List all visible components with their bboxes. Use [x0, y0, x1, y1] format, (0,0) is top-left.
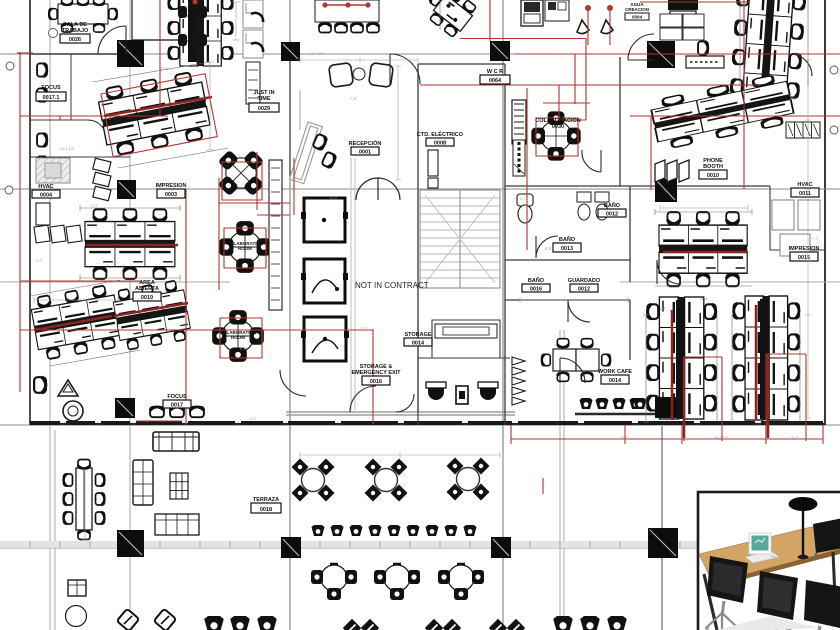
- svg-text:0019: 0019: [141, 295, 153, 301]
- bench 3-seat: [34, 225, 82, 243]
- JIT workstations: [243, 0, 263, 104]
- door sala de trabajo: [98, 26, 126, 54]
- red accents thick: [34, 97, 768, 438]
- svg-text:10'-0": 10'-0": [360, 327, 368, 331]
- svg-text:BAÑO: BAÑO: [559, 236, 576, 243]
- svg-text:IMPRESION: IMPRESION: [156, 183, 187, 189]
- door reception right: [390, 54, 420, 84]
- column C6: [655, 179, 677, 202]
- column C5: [117, 180, 136, 199]
- column C7: [115, 398, 135, 418]
- lockers dashed strip: [513, 140, 525, 176]
- svg-text:FOCUS: FOCUS: [41, 85, 61, 91]
- column C8: [655, 397, 676, 418]
- svg-text:7'-5": 7'-5": [350, 97, 358, 101]
- column C12: [648, 528, 678, 558]
- CTD electrico equipment: [428, 150, 438, 188]
- grid line vertical x=130: [129, 0, 131, 630]
- desk cluster B: [85, 209, 175, 279]
- chair 2 center: [757, 571, 798, 630]
- red vertical x651: [650, 116, 652, 190]
- round table T3 tilted: [420, 0, 478, 39]
- wall right rooms: [770, 186, 826, 250]
- svg-text:8'-2": 8'-2": [790, 97, 798, 101]
- wall colaboracion right: [619, 57, 621, 186]
- svg-text:0016: 0016: [370, 379, 382, 385]
- grid line horizontal y=543 terrace: [0, 543, 697, 548]
- svg-text:5'-1": 5'-1": [240, 347, 248, 351]
- label GUARDADO 0012: [568, 278, 601, 293]
- red segment facade left: [136, 420, 182, 422]
- red verticals work cafe: [526, 88, 528, 250]
- vertical desk cluster top T1: [169, 0, 233, 66]
- quad tables row 2: [311, 564, 357, 600]
- angled desk cluster A: [96, 70, 212, 156]
- colaboracion pod P1: [531, 111, 580, 160]
- chair near C4: [698, 41, 708, 55]
- lockers right: [786, 122, 820, 138]
- wall bath block horizontal: [505, 186, 770, 360]
- dimension cages thin: [30, 0, 808, 422]
- bar stools row: [580, 398, 659, 409]
- label IMPRESION 0015: [789, 246, 820, 261]
- door arc colaboracion: [582, 150, 601, 172]
- column diagonals: [117, 42, 676, 556]
- svg-text:14'-1 1/2": 14'-1 1/2": [60, 147, 76, 151]
- label BANO 0012: [598, 202, 626, 218]
- chair right back top: [813, 518, 840, 553]
- svg-text:CREACION: CREACION: [625, 7, 649, 12]
- bar counter: [575, 413, 658, 416]
- red vertical left: [19, 52, 21, 392]
- svg-text:GUARDADO: GUARDADO: [568, 278, 601, 284]
- red line T2: [325, 4, 368, 6]
- meeting table sala de trabajo: [49, 0, 117, 32]
- sofa horizontal: [155, 514, 199, 535]
- column C2: [281, 42, 300, 61]
- wall center core: [418, 64, 505, 425]
- svg-text:WORK CAFE: WORK CAFE: [598, 369, 632, 375]
- label COLABORACION 0030: [535, 118, 581, 130]
- grid line horizontal y=189: [0, 188, 840, 190]
- svg-text:0029: 0029: [258, 106, 270, 112]
- column C1: [117, 40, 144, 67]
- column C4: [647, 41, 675, 68]
- svg-text:0011: 0011: [799, 191, 811, 197]
- pantry counters: [521, 0, 569, 26]
- elevator 2: [301, 259, 348, 303]
- label IMPRESION 0003: [156, 183, 187, 198]
- grid line vertical x=50: [49, 0, 51, 630]
- svg-text:4'-6": 4'-6": [690, 387, 698, 391]
- label JUST IN TIME 0029: [249, 90, 279, 112]
- grid line horizontal y=282: [0, 281, 840, 283]
- svg-text:0013: 0013: [561, 246, 573, 252]
- label HVAC 0011: [791, 182, 819, 197]
- door bottom bath: [350, 386, 414, 412]
- lockers row below C4: [686, 56, 724, 68]
- svg-text:10'-2": 10'-2": [790, 436, 800, 440]
- svg-text:9'-6": 9'-6": [740, 5, 746, 9]
- door guardado: [568, 300, 590, 322]
- svg-text:0014: 0014: [412, 341, 425, 347]
- door hvac left: [204, 499, 206, 501]
- bottom diamond chairs: [117, 609, 140, 630]
- svg-text:0015: 0015: [798, 255, 810, 261]
- red box cluster A: [101, 74, 217, 157]
- desk shadow: [717, 616, 820, 630]
- laptop: [745, 551, 779, 563]
- red dim line bottom right: [511, 425, 823, 444]
- door focus bottom: [280, 370, 306, 396]
- shelf 3x3: [170, 473, 188, 499]
- svg-text:4'-3": 4'-3": [520, 197, 526, 201]
- red tiny dim texts: [60, 67, 800, 440]
- HVAC hatched unit: [36, 158, 70, 183]
- svg-text:FOCUS: FOCUS: [167, 394, 187, 400]
- grid line vertical x=503: [502, 0, 504, 630]
- left wall x=30: [29, 0, 31, 425]
- svg-text:BOOTH: BOOTH: [703, 164, 723, 170]
- desk cluster C: [659, 212, 747, 286]
- wall bottom bath: [418, 320, 510, 425]
- red pod connectors: [219, 152, 290, 290]
- desk legs: [704, 574, 717, 630]
- svg-text:ROOM: ROOM: [231, 335, 245, 340]
- lounge chairs row: [312, 525, 477, 536]
- elevator 3: [301, 317, 349, 361]
- red dim verticals top: [588, 8, 610, 45]
- photo frame: [698, 492, 840, 630]
- svg-text:ROOM: ROOM: [238, 246, 252, 251]
- svg-text:12'-4 1/2": 12'-4 1/2": [310, 52, 323, 56]
- label BANO 0013: [553, 236, 581, 252]
- svg-text:BAÑO: BAÑO: [604, 202, 621, 209]
- label AGUA CREACION 0004: [625, 2, 649, 20]
- chair 3 right: [804, 580, 840, 630]
- label BANO 0016: [522, 277, 550, 293]
- red vertical x186: [185, 189, 187, 425]
- label TERRAZA 0018: [251, 497, 281, 513]
- HVAC right equipment: [772, 200, 820, 256]
- wall sala de trabajo: [30, 0, 180, 54]
- entry double door: [356, 178, 400, 200]
- agua creacion chairs: [577, 20, 613, 34]
- svg-text:HVAC: HVAC: [797, 182, 812, 188]
- grid bubbles: [5, 29, 838, 195]
- building bottom wall: [30, 423, 826, 425]
- svg-text:0010: 0010: [707, 173, 719, 179]
- label WORK CAFE 0014: [598, 369, 632, 384]
- desk top: [699, 520, 840, 583]
- svg-text:11'-4": 11'-4": [700, 297, 709, 301]
- label STORAGE EMERGENCY EXIT 0016: [351, 364, 401, 385]
- svg-text:9'-0": 9'-0": [330, 197, 338, 201]
- svg-text:TERRAZA: TERRAZA: [253, 497, 279, 503]
- grid line vertical x=560 double: [560, 330, 564, 630]
- svg-text:NOT IN CONTRACT: NOT IN CONTRACT: [355, 281, 429, 290]
- bathroom fixtures top: [517, 192, 609, 223]
- svg-text:HVAC: HVAC: [38, 184, 53, 190]
- svg-text:CTD. ELÉCTRICO: CTD. ELÉCTRICO: [417, 130, 464, 138]
- printers impresion: [93, 158, 111, 201]
- pod P2: [206, 138, 276, 208]
- elevator 1: [301, 198, 348, 242]
- svg-text:0064: 0064: [489, 78, 502, 84]
- svg-text:W C R: W C R: [487, 69, 503, 75]
- sofa under wall: [153, 432, 199, 451]
- svg-text:6'-1": 6'-1": [660, 307, 666, 311]
- svg-text:IMPRESION: IMPRESION: [789, 246, 820, 252]
- long picnic table: [64, 460, 105, 540]
- red vertical x160 top: [159, 0, 161, 116]
- meeting table T2: [315, 0, 379, 33]
- svg-text:TRABAJO: TRABAJO: [62, 28, 89, 34]
- terrace paving band fill: [0, 541, 697, 548]
- pod P3: [219, 221, 271, 273]
- svg-text:5'-5": 5'-5": [36, 259, 42, 263]
- door arc focus: [88, 120, 106, 138]
- reception armchairs: [329, 63, 394, 88]
- side chairs along left wall: [37, 63, 47, 170]
- door top right wall: [628, 34, 654, 60]
- label FOCUS 0017.1: [36, 85, 66, 101]
- focus lounge chairs: [150, 407, 204, 417]
- wall storage room: [432, 320, 500, 358]
- svg-text:BAÑO: BAÑO: [528, 277, 545, 284]
- svg-text:TIME: TIME: [257, 96, 270, 102]
- dimension scatter: [34, 2, 811, 540]
- chair 1 left: [705, 556, 748, 630]
- svg-text:RECEPCIÓN: RECEPCIÓN: [349, 139, 382, 147]
- svg-text:24'-7 1/2": 24'-7 1/2": [714, 436, 730, 440]
- cabinet strip mid: [512, 100, 526, 144]
- work cafe table: [542, 339, 611, 382]
- door bano right: [657, 260, 681, 284]
- svg-text:0030: 0030: [552, 124, 564, 130]
- lamp: [789, 497, 818, 511]
- phone booths: [655, 160, 689, 182]
- mini rooms grid top right: [660, 14, 704, 40]
- red top center verticals: [489, 0, 491, 41]
- svg-text:0016: 0016: [530, 287, 542, 293]
- svg-text:0004: 0004: [632, 15, 643, 20]
- wall focus room bottom: [30, 54, 130, 157]
- red vertical x294: [293, 158, 295, 215]
- svg-text:6'-8": 6'-8": [545, 247, 553, 251]
- red horizontal y330: [20, 329, 374, 331]
- svg-text:0014: 0014: [609, 378, 622, 384]
- svg-text:0003: 0003: [165, 192, 177, 198]
- column C10: [281, 537, 301, 558]
- svg-text:0001: 0001: [359, 150, 371, 156]
- grid line vertical x=825 right wall: [824, 0, 826, 425]
- round chair: [63, 401, 83, 421]
- label HVAC 0004: [32, 184, 60, 199]
- svg-text:15'-0": 15'-0": [90, 204, 98, 208]
- svg-text:EMERGENCY EXIT: EMERGENCY EXIT: [351, 370, 401, 376]
- storage shelves: [435, 324, 497, 338]
- svg-text:0012: 0012: [578, 287, 590, 293]
- label FOCUS 0017: [163, 394, 191, 409]
- vertical cluster F: [647, 297, 715, 419]
- armchair left bottom: [34, 377, 46, 393]
- svg-text:4'-6": 4'-6": [750, 387, 758, 391]
- label STORAGE 0014: [404, 332, 432, 347]
- svg-text:18'-3": 18'-3": [620, 436, 630, 440]
- svg-text:8'-9": 8'-9": [250, 417, 256, 421]
- grid line horizontal y=425 building bottom: [0, 424, 840, 426]
- svg-text:0018: 0018: [260, 507, 272, 513]
- grid line horizontal y=54: [0, 53, 840, 55]
- vertical desk cluster top-right T4: [730, 0, 805, 106]
- reception counter: [289, 122, 322, 184]
- sofa vertical: [133, 460, 153, 505]
- label RECEPCION 0001: [349, 139, 382, 156]
- red dots top: [322, 2, 613, 11]
- door arcs: [98, 26, 812, 500]
- svg-text:ABIERTA: ABIERTA: [135, 286, 159, 292]
- red horizontal upper-left: [20, 116, 168, 120]
- label AREA ABIERTA 0019: [133, 280, 161, 301]
- terrace tables row 1: [292, 459, 335, 502]
- grid line vertical x=290: [289, 0, 291, 630]
- cabinet strip tall: [269, 160, 282, 310]
- stairs: [420, 190, 500, 288]
- stacked chairs strip: [512, 357, 525, 405]
- svg-text:0008: 0008: [434, 141, 446, 147]
- svg-text:0012: 0012: [606, 212, 618, 218]
- angled cluster D1: [29, 284, 123, 360]
- lobby corridor lines: [351, 158, 355, 410]
- column C8 repaint: [655, 397, 676, 418]
- column C9: [117, 530, 144, 557]
- door bano 13: [536, 236, 558, 258]
- bottom diamond pairs: [343, 619, 379, 630]
- grid line vertical x=55 terrace: [54, 430, 56, 630]
- chair and table bottom left: [68, 580, 86, 596]
- red box pods: [220, 118, 578, 358]
- svg-text:STORAGE: STORAGE: [404, 332, 431, 338]
- bathroom bottom fixtures: [426, 382, 498, 404]
- door right rooms: [790, 54, 812, 76]
- column C3: [490, 41, 510, 61]
- svg-text:0004: 0004: [40, 193, 53, 199]
- dark cabinet top right: [668, 0, 698, 20]
- angled cluster D2: [111, 279, 192, 350]
- lobby walk band: [286, 412, 515, 415]
- red horizontal y280: [20, 280, 140, 282]
- label SALA DE TRABAJO 0026: [60, 22, 90, 43]
- svg-text:7'-2": 7'-2": [812, 237, 818, 241]
- column C11: [491, 537, 511, 558]
- big angled cluster right: [649, 73, 795, 151]
- grid line vertical x=662: [661, 426, 663, 630]
- facade planter band: [30, 421, 823, 425]
- vertical cluster G: [734, 296, 800, 420]
- small desk left: [36, 203, 50, 225]
- triangle chair: [58, 380, 78, 396]
- svg-text:0017: 0017: [171, 403, 183, 409]
- label PHONE BOOTH 0010: [699, 158, 727, 179]
- svg-text:0017.1: 0017.1: [43, 95, 60, 101]
- bottom dark chair trio: [204, 616, 277, 630]
- label MCR 0064: [480, 69, 510, 84]
- red cluster rect right: [684, 357, 722, 441]
- door storage exit: [560, 358, 585, 383]
- label CTD ELECTRICO 0008: [417, 130, 464, 147]
- svg-text:0026: 0026: [69, 37, 81, 43]
- wall corridor verticals: [289, 54, 291, 176]
- pod P4: [212, 310, 264, 362]
- red vertical x373: [372, 330, 374, 424]
